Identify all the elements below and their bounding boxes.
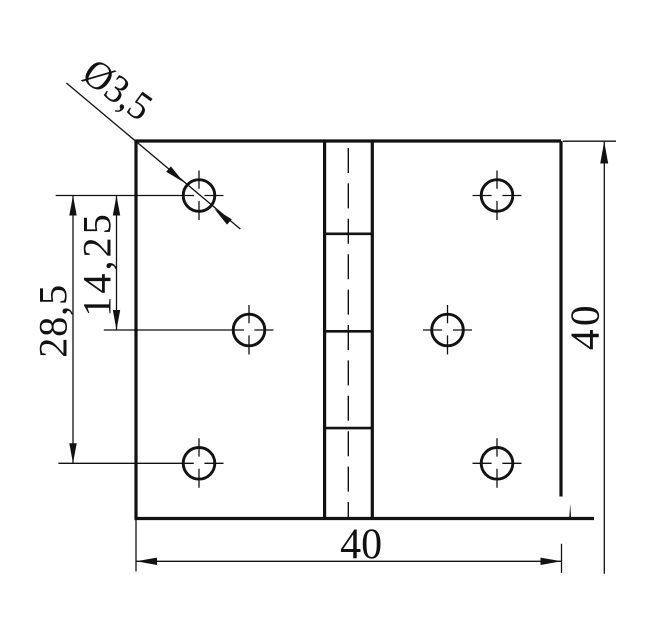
svg-text:40: 40: [340, 520, 382, 568]
svg-text:14,25: 14,25: [74, 214, 119, 317]
svg-text:28,5: 28,5: [30, 285, 75, 358]
